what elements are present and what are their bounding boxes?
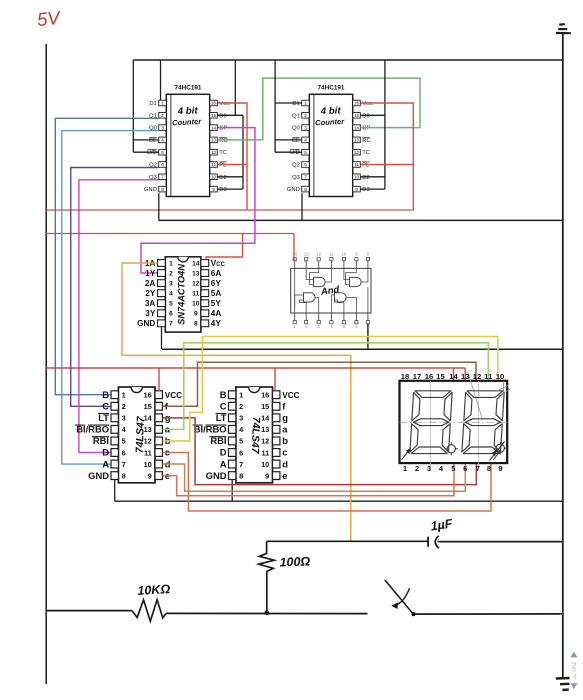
wire U2 D0/D2/D3 tie to top rail	[361, 60, 385, 189]
svg-text:g: g	[282, 412, 288, 423]
svg-text:GND: GND	[206, 470, 227, 481]
svg-text:Q0: Q0	[292, 126, 300, 132]
display corner ticks (top right)	[497, 382, 511, 397]
svg-text:Counter: Counter	[172, 117, 203, 128]
svg-text:7: 7	[239, 460, 243, 469]
wire U1 Q0 to decoder A (light blue)	[62, 131, 159, 465]
svg-text:11: 11	[484, 372, 493, 381]
wire U2 GND to rail	[301, 193, 303, 220]
svg-text:10: 10	[144, 460, 152, 469]
svg-text:10: 10	[342, 251, 347, 256]
svg-text:GND: GND	[137, 319, 155, 328]
svg-text:5Y: 5Y	[211, 299, 222, 308]
svg-text:10: 10	[354, 175, 360, 180]
wire U5 f to display pin12 (brown)	[163, 362, 477, 406]
svg-text:4: 4	[572, 672, 577, 682]
svg-text:7: 7	[161, 175, 164, 180]
svg-text:15: 15	[211, 113, 217, 118]
svg-text:11: 11	[261, 448, 269, 457]
5V net rail C (red, decoders/display)	[46, 368, 465, 391]
svg-text:D2: D2	[362, 175, 369, 181]
svg-text:D3: D3	[362, 187, 369, 193]
wire U2 Vcc + PL to 5V (red)	[361, 103, 414, 210]
svg-text:D0: D0	[362, 113, 369, 119]
svg-text:CE: CE	[149, 138, 157, 144]
wire U5 GND to rail C	[114, 480, 116, 502]
wire C1 to ground rail	[438, 541, 563, 543]
svg-text:D0: D0	[219, 113, 226, 119]
svg-text:B: B	[220, 389, 227, 400]
svg-text:CE: CE	[292, 138, 300, 144]
wire U5 e to display pin5 (light red)	[163, 463, 455, 496]
label R1 10K ohm	[137, 582, 171, 598]
svg-text:9: 9	[355, 187, 358, 192]
display digit 1 (7-seg)	[410, 391, 452, 454]
svg-text:PL: PL	[219, 163, 227, 169]
svg-text:D: D	[102, 447, 109, 458]
svg-text:13: 13	[211, 138, 217, 143]
svg-text:10: 10	[192, 301, 200, 308]
svg-text:14: 14	[354, 125, 360, 130]
svg-text:B: B	[102, 389, 109, 400]
svg-text:3: 3	[122, 414, 126, 423]
svg-text:10: 10	[211, 175, 217, 180]
svg-text:8: 8	[487, 464, 491, 473]
resistor R1 10K ohm (zigzag)	[132, 600, 166, 621]
svg-text:9: 9	[498, 464, 502, 473]
svg-text:TC: TC	[362, 150, 370, 156]
wire U1 Q2 to decoder C (indigo)	[71, 168, 159, 407]
svg-text:3: 3	[427, 464, 431, 473]
svg-text:4: 4	[304, 138, 307, 143]
svg-text:GND: GND	[144, 187, 157, 193]
svg-text:12: 12	[261, 437, 269, 446]
svg-text:C: C	[220, 400, 227, 411]
svg-text:SN74ACTO4N: SN74ACTO4N	[176, 264, 186, 325]
svg-text:6: 6	[122, 448, 126, 457]
ground symbol (bottom right)	[556, 678, 570, 690]
svg-text:16: 16	[425, 372, 433, 381]
svg-text:7: 7	[304, 175, 307, 180]
svg-text:A: A	[220, 458, 227, 469]
svg-text:Counter: Counter	[315, 117, 346, 128]
wire U1 Q3 to decoder D (magenta)	[79, 180, 159, 453]
display top pin numbers 18-10	[401, 372, 504, 381]
svg-text:5: 5	[304, 150, 307, 155]
svg-text:12: 12	[473, 372, 481, 381]
svg-text:RC: RC	[362, 138, 370, 144]
svg-text:5: 5	[122, 437, 126, 446]
GND net rail A (black, counters)	[159, 219, 563, 221]
svg-text:2A: 2A	[145, 279, 156, 288]
svg-text:16: 16	[354, 101, 360, 106]
svg-text:D2: D2	[219, 175, 226, 181]
display digit 2 (7-seg)	[462, 391, 504, 454]
decoder U6 (74LS47 #2)	[193, 387, 300, 483]
svg-text:1: 1	[169, 260, 173, 267]
svg-text:7: 7	[476, 464, 480, 473]
svg-text:8: 8	[304, 187, 307, 192]
page navigation widget 2/4	[570, 652, 577, 690]
svg-text:6: 6	[304, 162, 307, 167]
GND net rail B (black, inverter/AND)	[162, 348, 563, 350]
hex inverter U3 (SN74ACT04N)	[137, 257, 226, 332]
label R2 100 ohm	[279, 554, 310, 569]
wire U1 CP to inverter 1Y (magenta)	[141, 128, 255, 273]
svg-text:5: 5	[169, 301, 173, 308]
node junction dot	[264, 610, 269, 615]
svg-text:12: 12	[211, 150, 217, 155]
svg-text:6: 6	[169, 311, 173, 318]
counter U1 (74HC191 #1)	[144, 85, 231, 197]
wire U3 GND to rail	[161, 327, 163, 349]
7-segment display DS1 outline	[400, 373, 508, 471]
svg-text:13: 13	[144, 425, 152, 434]
svg-text:16: 16	[211, 101, 217, 106]
wire U5 d to display pin6 (tan)	[163, 463, 466, 491]
svg-text:1: 1	[122, 391, 126, 400]
svg-text:15: 15	[144, 402, 152, 411]
svg-text:2: 2	[304, 113, 307, 118]
svg-text:14: 14	[144, 414, 153, 423]
svg-text:74HC191: 74HC191	[317, 85, 344, 92]
svg-text:a: a	[282, 424, 288, 435]
svg-text:U/D: U/D	[147, 150, 157, 156]
svg-text:PL: PL	[362, 163, 370, 169]
svg-text:CP: CP	[362, 126, 370, 132]
counter U2 (74HC191 #2)	[287, 85, 374, 197]
wire U1 Q1 to decoder B (blue)	[55, 118, 158, 394]
svg-text:c: c	[282, 447, 287, 458]
svg-text:8: 8	[122, 471, 126, 480]
capacitor C1 plates	[428, 536, 439, 548]
svg-text:4: 4	[169, 291, 173, 298]
svg-text:13: 13	[354, 138, 360, 143]
svg-text:5A: 5A	[211, 289, 222, 298]
switch SW1 blade	[385, 580, 414, 615]
svg-text:3: 3	[161, 125, 164, 130]
svg-text:10: 10	[496, 372, 504, 381]
svg-text:11: 11	[211, 162, 216, 167]
svg-text:4A: 4A	[211, 309, 222, 318]
svg-text:D1: D1	[292, 101, 299, 107]
svg-text:9: 9	[212, 187, 215, 192]
5V net rail A (red, counters)	[46, 209, 413, 211]
svg-text:11: 11	[329, 251, 334, 256]
resistor R2 100 ohm (zigzag)	[259, 541, 275, 613]
wire R2 top to capacitor C1	[267, 540, 429, 542]
svg-text:10KΩ: 10KΩ	[137, 582, 171, 598]
ground rail (top horizontal)	[133, 59, 563, 61]
svg-text:2: 2	[415, 464, 419, 473]
wire U6 GND to rail C	[231, 480, 233, 502]
svg-text:Q3: Q3	[292, 175, 300, 181]
svg-text:9: 9	[148, 471, 152, 480]
svg-text:3: 3	[239, 414, 243, 423]
svg-text:1: 1	[239, 391, 243, 400]
svg-text:18: 18	[401, 372, 409, 381]
svg-text:74LS47: 74LS47	[249, 417, 262, 455]
ground rail (right vertical)	[562, 33, 564, 678]
svg-text:U/D: U/D	[290, 150, 300, 156]
svg-text:D3: D3	[219, 187, 226, 193]
svg-text:Q2: Q2	[292, 163, 300, 169]
decoder U5 (74LS47 #1)	[75, 387, 182, 483]
svg-text:3Y: 3Y	[145, 309, 156, 318]
svg-text:1Y: 1Y	[145, 269, 156, 278]
svg-text:GND: GND	[88, 470, 109, 481]
wire U5 a to display pin11 (light green)	[163, 343, 489, 430]
svg-text:6A: 6A	[211, 269, 222, 278]
svg-text:11: 11	[144, 448, 152, 457]
svg-text:12: 12	[354, 150, 360, 155]
svg-text:D: D	[220, 447, 227, 458]
svg-text:14: 14	[261, 414, 270, 423]
wire R1 to switch (node segment)	[166, 612, 367, 614]
svg-text:2: 2	[239, 402, 243, 411]
switch SW1 contact dot	[411, 612, 415, 616]
display decimal point 1	[445, 442, 458, 455]
svg-text:11: 11	[354, 162, 359, 167]
svg-text:Q1: Q1	[292, 113, 300, 119]
wire U2 D1/CE/UD tie to top rail	[275, 60, 302, 152]
svg-text:15: 15	[436, 372, 445, 381]
svg-text:9: 9	[194, 311, 198, 318]
svg-text:3: 3	[304, 125, 307, 130]
display bottom pin numbers 1-9	[403, 464, 503, 473]
svg-text:VCC: VCC	[165, 391, 182, 400]
svg-text:3A: 3A	[145, 299, 156, 308]
svg-text:CP: CP	[219, 126, 227, 132]
wire U1 D0/D2/D3 tie to top rail	[218, 60, 244, 189]
svg-text:TC: TC	[219, 150, 227, 156]
wire U3 Vcc to 5V rail B (red)	[206, 234, 243, 260]
svg-text:17: 17	[413, 372, 421, 381]
svg-text:13: 13	[192, 270, 200, 277]
svg-text:16: 16	[144, 391, 152, 400]
wire U1 D1 pin1 to top GND rail	[160, 60, 162, 100]
svg-text:8: 8	[161, 187, 164, 192]
svg-text:12: 12	[192, 281, 200, 288]
wire switch to ground rail	[414, 613, 563, 615]
svg-text:13: 13	[461, 372, 469, 381]
svg-text:11: 11	[192, 291, 199, 298]
svg-text:GND: GND	[287, 187, 300, 193]
svg-text:8: 8	[194, 321, 198, 328]
svg-text:D1: D1	[149, 101, 156, 107]
svg-text:14: 14	[449, 372, 458, 381]
wire U5 b to display pin10 (yellow)	[163, 337, 498, 441]
wire U1 GND to rail	[158, 193, 160, 220]
svg-text:2: 2	[161, 113, 164, 118]
svg-text:VCC: VCC	[282, 391, 299, 400]
wire U1 RC to U2 CP (green)	[218, 78, 421, 140]
svg-text:2: 2	[169, 270, 173, 277]
GND net rail C (black, decoders)	[115, 500, 563, 502]
svg-text:14: 14	[192, 260, 200, 267]
svg-text:6: 6	[161, 162, 164, 167]
svg-text:2: 2	[122, 402, 126, 411]
wire U4 Vcc pin to 5V rail B (red)	[293, 234, 295, 261]
svg-text:C: C	[102, 400, 109, 411]
wire U5 g to display pin7 (dark red)	[163, 418, 477, 485]
quad AND gate U4	[291, 251, 371, 329]
display corner arrow (bottom left)	[402, 448, 411, 460]
svg-text:6: 6	[239, 448, 243, 457]
svg-text:1: 1	[161, 101, 164, 106]
svg-text:2Y: 2Y	[145, 289, 156, 298]
svg-text:5: 5	[239, 437, 243, 446]
display decimal point 2	[494, 442, 507, 455]
svg-text:4 bit: 4 bit	[177, 105, 199, 117]
wire U1 Vcc + PL to 5V (red)	[218, 103, 248, 210]
svg-text:RC: RC	[219, 138, 227, 144]
svg-text:6: 6	[463, 464, 467, 473]
svg-text:4: 4	[161, 138, 164, 143]
svg-text:16: 16	[261, 391, 269, 400]
svg-text:100Ω: 100Ω	[279, 554, 310, 569]
svg-text:e: e	[282, 470, 287, 481]
wire 5V rail to resistor R1	[46, 610, 132, 612]
svg-text:9: 9	[265, 471, 269, 480]
svg-text:74HC191: 74HC191	[174, 85, 201, 92]
wire U1 CE/UD tie to top rail	[133, 60, 158, 152]
svg-text:12: 12	[316, 251, 321, 256]
svg-text:15: 15	[261, 402, 269, 411]
svg-text:10: 10	[261, 460, 269, 469]
svg-text:3: 3	[169, 281, 173, 288]
5V rail (left vertical)	[45, 44, 47, 684]
svg-text:d: d	[282, 458, 288, 469]
svg-text:5V: 5V	[36, 7, 62, 30]
svg-text:5: 5	[161, 150, 164, 155]
label C1 1uF	[430, 517, 454, 534]
ground symbol (top right)	[556, 24, 571, 33]
svg-text:2: 2	[572, 661, 577, 671]
wire U4 GND pin to rail	[367, 324, 369, 349]
svg-text:13: 13	[261, 425, 269, 434]
svg-text:4Y: 4Y	[211, 319, 222, 328]
svg-text:14: 14	[211, 125, 217, 130]
svg-text:1: 1	[304, 101, 307, 106]
wire U3 1A to 100-ohm node (amber)	[122, 263, 351, 541]
5V supply label	[36, 7, 62, 30]
svg-text:15: 15	[354, 113, 360, 118]
svg-text:b: b	[282, 435, 288, 446]
svg-text:7: 7	[169, 321, 173, 328]
svg-text:8: 8	[239, 471, 243, 480]
wire U5 c to display pin8 (orange red)	[163, 453, 492, 512]
5V net rail B (red, inverter/AND)	[46, 233, 294, 235]
svg-text:7: 7	[122, 460, 126, 469]
svg-text:13: 13	[304, 251, 309, 256]
svg-text:14: 14	[292, 251, 297, 256]
svg-text:12: 12	[144, 437, 152, 446]
svg-text:6Y: 6Y	[211, 279, 222, 288]
svg-text:4 bit: 4 bit	[320, 105, 342, 117]
display arrows near decimal point 2	[490, 442, 505, 461]
svg-text:A: A	[102, 458, 109, 469]
